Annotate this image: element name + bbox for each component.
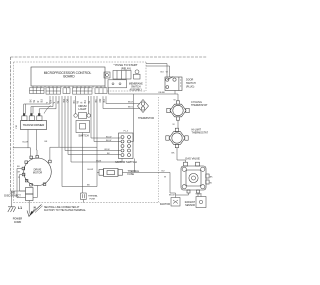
console dashed top [14,61,147,63]
wire fuse left to motor bottom [62,172,99,186]
svg-text:MOTOR: MOTOR [33,172,42,175]
transformer spade terminals [23,113,40,116]
wire board to motor switch bottom [68,96,121,155]
cabinet outline left [10,57,12,189]
svg-text:N: N [34,206,36,210]
wire to door switch lower [146,66,170,77]
svg-text:BK-W: BK-W [169,195,174,197]
console dashed left [13,62,15,203]
svg-text:THERMOSTAT: THERMOSTAT [192,132,209,135]
relay coil box [113,71,131,80]
svg-text:R: R [37,101,40,103]
svg-text:SENSOR: SENSOR [185,205,195,207]
drum light switch bottom wire [82,133,84,194]
svg-text:BR: BR [63,99,66,103]
wire board to motor connector run 1 [61,96,63,187]
svg-text:PRI: PRI [16,125,18,129]
relay contact box [104,72,110,78]
transformer pins [22,116,42,121]
svg-text:OR-BK: OR-BK [158,92,165,94]
cabinet dashed bottom [14,202,160,204]
line disconnect connector [26,188,34,201]
gas valve body [181,162,209,193]
svg-text:FUSE: FUSE [90,198,96,200]
svg-text:ASSEMBLY: ASSEMBLY [129,89,142,92]
wire door switch bottom [175,91,178,101]
wire fuse right to valve [123,172,189,197]
svg-text:BU-W: BU-W [23,141,29,143]
thermistor wires [106,96,140,103]
svg-text:L1: L1 [18,206,22,210]
connector block P2 [46,88,61,94]
drum light switch box [76,121,90,133]
microprocessor control board [31,67,105,86]
svg-text:W: W [210,183,212,185]
svg-text:BU-W: BU-W [88,169,94,171]
ground wire [11,191,13,207]
wire valve to sensor [198,193,201,197]
svg-text:TRANSFORMER: TRANSFORMER [23,123,45,127]
transformer [21,121,47,130]
svg-text:BK: BK [30,99,33,103]
svg-text:THERMAL: THERMAL [88,195,99,198]
board pin ticks [33,86,105,88]
wire to door switch upper [146,64,167,78]
wires transformer to motor [28,130,31,157]
connector block P4 [73,88,93,94]
svg-text:SWITCH: SWITCH [78,134,88,138]
wire frame to connector [11,189,26,192]
ground [8,207,16,212]
wire cyc to hi-limit [177,120,179,128]
svg-text:IGNITOR: IGNITOR [160,203,170,206]
radiant sensor box [196,197,206,208]
svg-text:(PLUG): (PLUG) [186,85,194,88]
svg-text:R: R [80,102,83,104]
connector block P5 [95,88,107,94]
console dashed bottom (right portion) [107,90,146,92]
membrane switch box [108,80,127,88]
wire long horizontal to thermostat chain [109,88,176,94]
cycling thermostat [167,101,189,120]
wire board to fuse junction [96,96,98,172]
thermal fuse [99,168,123,176]
cabinet dashed riser right [158,97,160,203]
igniter box [171,198,180,207]
svg-text:NEUTRAL LINE CONNECTED AT: NEUTRAL LINE CONNECTED AT [44,206,80,209]
wire board to motor switch bottom 2 [71,96,122,162]
svg-text:CORD: CORD [14,221,22,224]
svg-text:DISCONNECT: DISCONNECT [4,195,21,198]
neutral note callout [35,206,43,213]
wire motor right tab to thermal fuse feed [50,147,97,160]
drum light feed wires [76,96,89,114]
svg-text:GAS VALVE: GAS VALVE [185,157,200,161]
svg-text:(RELAY): (RELAY) [121,66,131,70]
connector block P1 [30,88,45,94]
svg-text:LIGHT: LIGHT [79,107,87,111]
svg-text:BK-W: BK-W [106,140,111,142]
motor bottom wire [33,186,37,198]
motor connector PL-5 [119,133,134,159]
wire board to motor connector run 2 [65,96,121,151]
console dashed right [145,62,147,91]
curved wire at transformer [44,106,51,114]
buzzer [134,70,141,79]
wire left feed to motor [13,147,28,149]
svg-text:BU: BU [162,170,165,172]
svg-text:OR: OR [99,99,102,103]
thermal fuse (exhaust) [81,193,87,200]
wire motor switch to gas valve [134,159,136,173]
door switch [165,77,182,91]
svg-text:THERMOSTAT: THERMOSTAT [191,104,208,107]
drive motor [22,156,51,187]
wires from board down left to transformer [24,96,50,114]
power cord wire arrow [28,201,30,214]
svg-text:FACTORY TO THE PLATED TERMINAL: FACTORY TO THE PLATED TERMINAL [44,209,87,212]
drum light lamp [74,113,91,119]
svg-text:BU: BU [40,99,43,103]
svg-text:BK: BK [95,99,98,103]
motor left wires to disconnect [17,169,26,198]
svg-text:MOTOR SWITCH: MOTOR SWITCH [115,160,136,164]
svg-text:OR-W: OR-W [104,149,110,151]
svg-text:THERMISTOR: THERMISTOR [138,117,154,120]
svg-text:BK-R: BK-R [128,102,133,104]
wire exhaust fuse to cabinet [82,200,84,203]
wire from board down to motor junction [58,96,60,147]
wire hi-limit to gas valve [177,148,186,163]
svg-text:BU-W: BU-W [106,136,111,138]
svg-text:BU: BU [161,72,164,74]
thermistor [138,100,149,113]
svg-text:FUSE: FUSE [128,173,135,176]
cabinet outline top [11,56,208,58]
hi-limit thermostat [166,128,188,148]
svg-text:BU: BU [84,100,87,104]
svg-text:RADIANT: RADIANT [185,201,196,204]
svg-text:BK-V: BK-V [128,107,133,109]
svg-text:W-BK: W-BK [196,194,202,196]
svg-text:W: W [164,177,166,179]
wire color labels under connectors [30,99,106,104]
wire board to motor connector pins [91,96,121,138]
svg-text:BOARD: BOARD [63,75,75,79]
wire motor switch to door circuit [131,94,134,142]
svg-text:BU: BU [17,166,20,168]
connector block P3 [63,88,70,94]
svg-text:OR: OR [17,172,21,174]
transformer pin stub wires [26,104,33,114]
